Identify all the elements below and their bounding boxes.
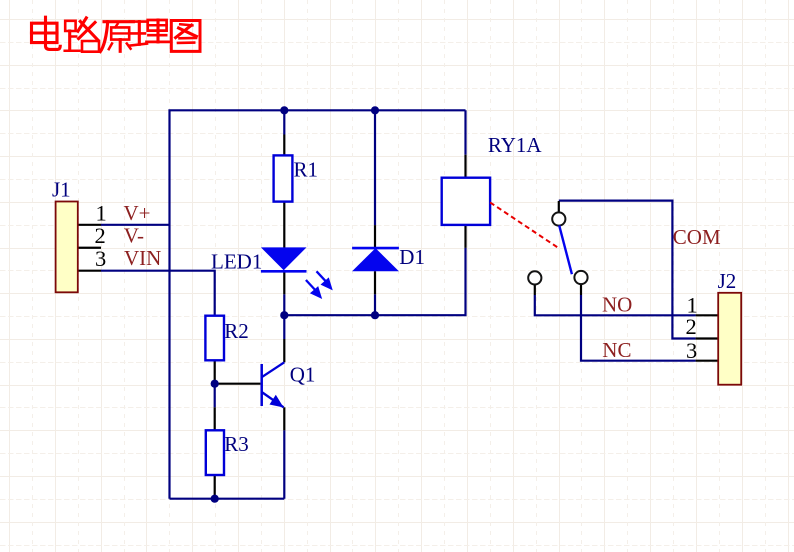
svg-text:3: 3 <box>686 338 697 363</box>
svg-text:Q1: Q1 <box>290 362 316 386</box>
svg-text:2: 2 <box>95 223 106 248</box>
svg-text:V+: V+ <box>124 201 151 225</box>
svg-text:R1: R1 <box>294 157 319 181</box>
svg-text:V-: V- <box>124 223 144 247</box>
svg-text:NO: NO <box>602 292 632 316</box>
svg-text:R3: R3 <box>224 432 249 456</box>
svg-text:R2: R2 <box>224 319 249 343</box>
svg-text:NC: NC <box>602 338 631 362</box>
svg-text:2: 2 <box>686 314 697 339</box>
svg-text:J1: J1 <box>52 177 71 201</box>
svg-text:3: 3 <box>95 246 106 271</box>
svg-text:RY1A: RY1A <box>488 133 543 157</box>
svg-text:LED1: LED1 <box>211 249 262 273</box>
svg-text:COM: COM <box>673 225 721 249</box>
svg-text:1: 1 <box>96 201 107 226</box>
svg-text:J2: J2 <box>718 269 737 293</box>
svg-text:D1: D1 <box>399 245 425 269</box>
svg-text:VIN: VIN <box>124 246 161 270</box>
